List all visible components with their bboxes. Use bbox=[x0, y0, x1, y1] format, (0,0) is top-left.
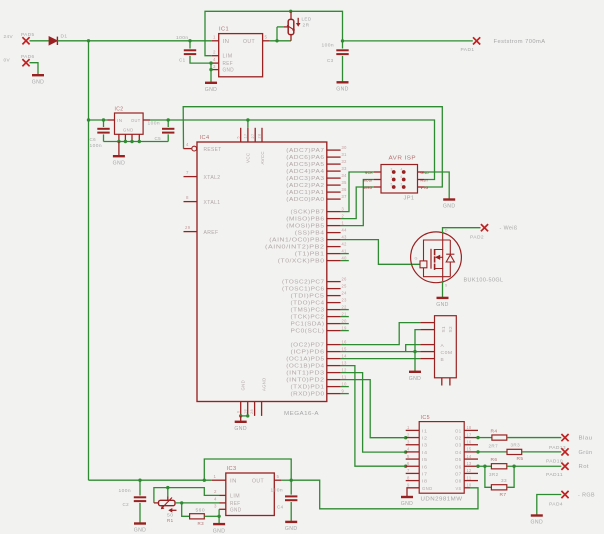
svg-text:GND: GND bbox=[336, 87, 349, 93]
IC4 pin 13 (OC1B)PD4 bbox=[286, 360, 347, 369]
svg-text:40: 40 bbox=[342, 255, 347, 260]
IC2 pin stubs bbox=[108, 119, 151, 121]
wire R4 to PAD13 bbox=[507, 437, 562, 439]
wire VCC pin to VCC rail bbox=[246, 118, 249, 128]
IC4 left pin XTAL1 bbox=[184, 195, 221, 206]
resistor R4 2R7 bbox=[489, 428, 507, 448]
svg-text:15: 15 bbox=[467, 447, 472, 452]
IC4 pin 42 (AIN0/INT2)PB2 bbox=[265, 241, 347, 250]
svg-text:GND: GND bbox=[230, 507, 242, 513]
wire R5 to PAD10 bbox=[522, 451, 562, 453]
wire O2 to R4 bbox=[478, 437, 492, 439]
wire stub PC1 bbox=[341, 323, 349, 325]
wire left vertical rail bbox=[88, 41, 90, 480]
pad PAD4 RGB common bbox=[549, 491, 595, 508]
svg-text:13: 13 bbox=[467, 461, 472, 466]
svg-text:(INT0)PD2: (INT0)PD2 bbox=[286, 378, 324, 384]
trimmer R2 labels bbox=[302, 17, 312, 28]
capacitor C4 100n bbox=[271, 480, 298, 522]
svg-text:17: 17 bbox=[244, 134, 248, 139]
svg-text:I3: I3 bbox=[422, 443, 428, 448]
IC4 pin 22 (TMS)PC3 bbox=[291, 304, 347, 313]
svg-text:GND: GND bbox=[134, 528, 147, 534]
wire R6 to PAD11 bbox=[507, 465, 562, 467]
svg-text:RST: RST bbox=[421, 179, 429, 183]
wire PAD6 to ground bbox=[30, 63, 39, 75]
svg-text:8: 8 bbox=[407, 475, 410, 480]
IC4 pin 31 (ADC6)PA6 bbox=[286, 152, 347, 161]
svg-text:AGND: AGND bbox=[261, 377, 267, 391]
IC1 pin numbers bbox=[213, 35, 268, 70]
IC4 pin 12 (INT1)PD3 bbox=[286, 367, 347, 376]
svg-text:(SS)PB4: (SS)PB4 bbox=[295, 231, 325, 237]
svg-text:28: 28 bbox=[258, 134, 262, 139]
IC4 pin 11 (INT0)PD2 bbox=[286, 374, 347, 383]
junction C2 top bbox=[138, 479, 141, 482]
IC4 pin 21 (TCK)PC2 bbox=[291, 311, 347, 320]
switch S1 rotary encoder box bbox=[420, 316, 456, 386]
svg-text:GND: GND bbox=[213, 528, 226, 534]
svg-text:GND: GND bbox=[234, 426, 247, 432]
svg-text:C4: C4 bbox=[277, 505, 284, 511]
IC4 pin 3 (SCK)PB7 bbox=[291, 206, 345, 215]
svg-text:(MISO)PB6: (MISO)PB6 bbox=[286, 217, 324, 223]
svg-text:S2: S2 bbox=[448, 326, 453, 333]
svg-text:(T1)PB1: (T1)PB1 bbox=[295, 252, 325, 258]
svg-text:(ADC5)PA5: (ADC5)PA5 bbox=[286, 162, 324, 168]
svg-text:4: 4 bbox=[186, 142, 189, 147]
svg-text:LIM: LIM bbox=[223, 54, 233, 60]
svg-text:16: 16 bbox=[342, 339, 347, 344]
IC4 pin 36 (ADC1)PA1 bbox=[286, 187, 347, 196]
IC4 pin 2 (MISO)PB6 bbox=[286, 213, 344, 222]
svg-text:C5: C5 bbox=[155, 136, 162, 142]
svg-text:MISO: MISO bbox=[363, 186, 373, 190]
svg-text:4: 4 bbox=[214, 497, 217, 502]
diode D1 bbox=[49, 34, 68, 46]
ground symbol at C3 bbox=[336, 82, 349, 92]
svg-text:IC2: IC2 bbox=[115, 107, 124, 113]
svg-text:2: 2 bbox=[214, 489, 217, 494]
svg-text:26: 26 bbox=[342, 276, 347, 281]
svg-text:GND: GND bbox=[32, 79, 45, 85]
transistor T1 BUK100-50GL bbox=[411, 229, 504, 288]
capacitor C2 100n bbox=[119, 480, 147, 523]
svg-text:GND: GND bbox=[223, 68, 235, 74]
svg-text:XTAL2: XTAL2 bbox=[204, 175, 221, 181]
svg-text:33: 33 bbox=[342, 166, 347, 171]
svg-text:O7: O7 bbox=[455, 471, 462, 476]
IC5 GND pin to ground bbox=[407, 488, 419, 497]
wire R3 to IC3 GND pin bbox=[204, 515, 219, 517]
microcontroller IC4 MEGA16-A box bbox=[197, 135, 327, 417]
IC1 pin stubs bbox=[211, 41, 270, 70]
svg-text:2: 2 bbox=[342, 213, 345, 218]
svg-text:I8: I8 bbox=[422, 479, 428, 484]
IC4 pin 40 (T0/XCK)PB0 bbox=[278, 255, 347, 264]
svg-text:R6: R6 bbox=[491, 457, 498, 463]
svg-text:R4: R4 bbox=[491, 428, 498, 434]
junction IC3 OUT bbox=[290, 479, 293, 482]
svg-text:XTAL1: XTAL1 bbox=[204, 200, 221, 206]
svg-text:44: 44 bbox=[342, 227, 347, 232]
wire stub PC0 bbox=[341, 330, 349, 332]
junction REF / R3 bbox=[180, 501, 183, 504]
svg-text:G: G bbox=[415, 257, 418, 261]
svg-text:UDN2981MW: UDN2981MW bbox=[421, 497, 463, 503]
svg-text:11: 11 bbox=[342, 374, 347, 379]
svg-text:O8: O8 bbox=[455, 479, 462, 484]
wire stub PD0 bbox=[341, 393, 349, 395]
wire RESET rail to ISP bbox=[183, 107, 442, 187]
svg-text:VCC: VCC bbox=[246, 152, 252, 163]
pad PAD2 white LED output bbox=[470, 224, 518, 240]
svg-text:PAD11: PAD11 bbox=[546, 472, 563, 478]
wire O6 to R6 bbox=[478, 465, 491, 467]
junction R3 / GND bbox=[217, 515, 220, 518]
wire IC3 GND pin to ground bbox=[218, 509, 220, 524]
resistor R7 33 parallel branch bbox=[485, 466, 514, 498]
svg-text:S1: S1 bbox=[441, 326, 446, 333]
svg-text:12: 12 bbox=[342, 367, 347, 372]
svg-text:C0M: C0M bbox=[441, 350, 453, 356]
svg-text:22: 22 bbox=[342, 304, 347, 309]
ground symbol at C2 bbox=[134, 524, 147, 534]
svg-text:VTG: VTG bbox=[421, 186, 429, 190]
svg-text:7: 7 bbox=[186, 170, 189, 175]
svg-text:41: 41 bbox=[342, 248, 347, 253]
svg-text:36: 36 bbox=[342, 187, 347, 192]
wire trimmer row to IC3 LIM bbox=[154, 488, 220, 503]
svg-text:50: 50 bbox=[167, 513, 174, 518]
IC4 pin 26 (TOSC2)PC7 bbox=[282, 276, 347, 285]
wire R1 to IC3 REF bbox=[175, 502, 220, 504]
svg-text:MEGA16-A: MEGA16-A bbox=[284, 411, 319, 417]
ground symbol at IC1 bbox=[205, 83, 218, 93]
svg-text:GND: GND bbox=[401, 501, 414, 507]
svg-text:3: 3 bbox=[214, 504, 217, 509]
svg-text:IC1: IC1 bbox=[219, 27, 229, 33]
IC4 left pin XTAL2 bbox=[184, 170, 221, 181]
junction top rail / trimmer R2 bbox=[289, 10, 292, 13]
IC4 pin 23 (TDO)PC4 bbox=[291, 297, 347, 306]
svg-text:(TOSC2)PC7: (TOSC2)PC7 bbox=[282, 280, 325, 286]
wire O4 to R5 bbox=[478, 451, 507, 453]
IC4 pin 44 (SS)PB4 bbox=[295, 227, 347, 236]
svg-text:3: 3 bbox=[213, 64, 216, 69]
wire PD6 to encoder COM bbox=[341, 351, 421, 353]
wire IC2 ground drop bbox=[118, 142, 120, 157]
svg-text:I1: I1 bbox=[422, 428, 428, 433]
junction VCC row / left rail bbox=[87, 118, 90, 121]
svg-text:Grün: Grün bbox=[579, 450, 593, 456]
svg-text:R7: R7 bbox=[500, 492, 507, 498]
regulator IC2 box bbox=[115, 107, 144, 135]
svg-text:6: 6 bbox=[236, 411, 240, 413]
IC4 pin 15 (ICP)PD6 bbox=[291, 346, 347, 355]
wire IC3 OUT to C4 and VS bbox=[281, 479, 291, 481]
driver IC5 box bbox=[419, 415, 464, 503]
svg-text:(ADC6)PA6: (ADC6)PA6 bbox=[286, 155, 324, 161]
wire IC3 bypass loop IN to OUT bbox=[204, 459, 291, 480]
regulator IC3 box bbox=[226, 466, 274, 516]
svg-text:100n: 100n bbox=[119, 488, 132, 494]
junction wiper R1 bbox=[166, 486, 169, 489]
svg-text:42: 42 bbox=[342, 241, 347, 246]
wire PD2 to IC5 I2 bbox=[341, 380, 408, 440]
IC4 pin 14 (OC1A)PD5 bbox=[286, 353, 347, 362]
svg-text:(OC1A)PD5: (OC1A)PD5 bbox=[286, 357, 324, 363]
ground symbol at IC5 bbox=[401, 497, 414, 507]
capacitor C6 100n bbox=[90, 120, 110, 149]
capacitor C3 100n bbox=[322, 41, 349, 82]
svg-text:7: 7 bbox=[407, 468, 410, 473]
junction at 24V rail / left vertical rail bbox=[87, 39, 90, 42]
svg-text:(ICP)PD6: (ICP)PD6 bbox=[291, 350, 325, 356]
svg-text:21: 21 bbox=[342, 311, 347, 316]
svg-text:1: 1 bbox=[391, 175, 393, 179]
svg-text:10: 10 bbox=[342, 381, 347, 386]
svg-text:PAD5: PAD5 bbox=[21, 32, 35, 38]
svg-text:R3: R3 bbox=[198, 521, 205, 526]
IC4 pin 16 (OC2)PD7 bbox=[291, 339, 347, 348]
svg-text:25: 25 bbox=[342, 283, 347, 288]
svg-text:GND: GND bbox=[409, 376, 422, 382]
svg-text:I5: I5 bbox=[422, 457, 428, 462]
svg-text:AREF: AREF bbox=[204, 230, 219, 236]
svg-text:MOSI: MOSI bbox=[363, 179, 373, 183]
IC5 pin stubs and labels bbox=[406, 425, 478, 491]
svg-text:IC5: IC5 bbox=[421, 415, 431, 421]
svg-text:0V: 0V bbox=[4, 58, 11, 64]
junction at C1 / 24V rail bbox=[188, 39, 191, 42]
svg-text:(T0/XCK)PB0: (T0/XCK)PB0 bbox=[278, 259, 325, 265]
wire REF junction down to R3 bbox=[182, 503, 190, 516]
svg-text:O3: O3 bbox=[455, 443, 462, 448]
svg-text:PC1(SDA): PC1(SDA) bbox=[291, 322, 325, 328]
junction IC5 O6 bbox=[476, 465, 479, 468]
wire IC1 REF/GND to ground bbox=[209, 61, 212, 82]
svg-text:6: 6 bbox=[407, 461, 410, 466]
svg-text:(SCK)PB7: (SCK)PB7 bbox=[291, 210, 325, 216]
svg-text:IN: IN bbox=[223, 39, 230, 45]
svg-text:5: 5 bbox=[277, 474, 280, 479]
svg-text:REF: REF bbox=[223, 61, 234, 67]
svg-text:IC4: IC4 bbox=[200, 135, 210, 141]
svg-text:100n: 100n bbox=[148, 121, 161, 127]
svg-text:(RXD)PD0: (RXD)PD0 bbox=[291, 392, 325, 398]
svg-text:10: 10 bbox=[467, 483, 472, 488]
trimmer R2 bbox=[277, 11, 301, 41]
svg-text:100n: 100n bbox=[322, 43, 335, 49]
svg-text:5: 5 bbox=[407, 454, 410, 459]
svg-text:IC3: IC3 bbox=[227, 466, 237, 472]
svg-text:Feststrom 700mA: Feststrom 700mA bbox=[494, 39, 546, 45]
pad PAD13 blue bbox=[549, 434, 593, 451]
svg-text:(ADC7)PA7: (ADC7)PA7 bbox=[286, 148, 324, 154]
svg-text:D1: D1 bbox=[61, 34, 68, 40]
svg-text:O1: O1 bbox=[455, 428, 462, 433]
svg-text:C3: C3 bbox=[327, 58, 334, 64]
svg-text:(MOSI)PB5: (MOSI)PB5 bbox=[286, 224, 324, 230]
svg-text:16: 16 bbox=[467, 440, 472, 445]
ground symbol at IC4 bbox=[234, 422, 247, 432]
svg-text:PAD10: PAD10 bbox=[546, 459, 563, 465]
svg-text:(TCK)PC2: (TCK)PC2 bbox=[291, 315, 325, 321]
svg-text:24V: 24V bbox=[4, 34, 14, 40]
wire PD4 to IC5 I6 bbox=[341, 366, 408, 468]
wire PD7 to encoder pin1 bbox=[341, 323, 421, 345]
svg-text:100n: 100n bbox=[176, 35, 189, 41]
svg-text:O4: O4 bbox=[455, 450, 462, 455]
svg-text:14: 14 bbox=[342, 353, 347, 358]
svg-text:(TDI)PC5: (TDI)PC5 bbox=[291, 294, 325, 300]
svg-text:GND: GND bbox=[422, 486, 433, 491]
svg-text:PAD2: PAD2 bbox=[470, 235, 484, 241]
JP1 pin names bbox=[363, 171, 429, 190]
junction encoder COM / ground bbox=[413, 350, 416, 353]
svg-text:JP1: JP1 bbox=[404, 196, 415, 202]
resistor R5 3R3 bbox=[507, 443, 524, 462]
IC4 left pin RESET with bubble bbox=[184, 142, 222, 153]
svg-text:2R: 2R bbox=[303, 23, 310, 28]
svg-text:O6: O6 bbox=[455, 464, 462, 469]
svg-text:GND: GND bbox=[241, 380, 247, 391]
svg-text:4: 4 bbox=[213, 57, 216, 62]
svg-text:R1: R1 bbox=[167, 518, 174, 523]
svg-text:3R3: 3R3 bbox=[511, 443, 521, 448]
IC4 pin 20 PC1(SDA) bbox=[291, 318, 347, 327]
svg-text:28: 28 bbox=[250, 409, 254, 414]
wire left rail to IC2 IN bbox=[89, 119, 108, 121]
svg-text:AVR ISP: AVR ISP bbox=[389, 156, 417, 162]
svg-text:REF: REF bbox=[230, 501, 241, 507]
svg-text:3R2: 3R2 bbox=[489, 472, 499, 477]
capacitor C5 100n bbox=[148, 120, 175, 142]
svg-text:560: 560 bbox=[196, 507, 206, 512]
wire stub PB1 bbox=[341, 253, 349, 255]
trimmer R1 bbox=[154, 488, 177, 513]
svg-text:BUK100-50GL: BUK100-50GL bbox=[464, 278, 504, 284]
svg-text:R5: R5 bbox=[517, 456, 524, 462]
junction IC5 O2 bbox=[476, 436, 479, 439]
svg-text:1: 1 bbox=[213, 35, 216, 40]
wire PD3 to IC5 I4 bbox=[341, 373, 408, 454]
IC4 left pin AREF bbox=[184, 225, 219, 236]
svg-text:1: 1 bbox=[214, 474, 217, 479]
svg-text:5: 5 bbox=[391, 183, 393, 187]
svg-text:4: 4 bbox=[401, 168, 403, 172]
svg-text:GND: GND bbox=[113, 160, 126, 166]
IC3 pin stubs bbox=[212, 480, 281, 509]
junction R6 / R7 left bbox=[483, 465, 486, 468]
svg-text:(TOSC1)PC6: (TOSC1)PC6 bbox=[282, 287, 325, 293]
svg-text:IN: IN bbox=[117, 118, 123, 123]
wire D1 cathode to IC1 IN (24V rail) bbox=[57, 40, 211, 42]
svg-text:2: 2 bbox=[213, 50, 216, 55]
svg-text:D: D bbox=[445, 229, 448, 233]
wire stub PD1 bbox=[341, 386, 349, 388]
svg-text:18: 18 bbox=[243, 409, 247, 414]
svg-text:PC0(SCL): PC0(SCL) bbox=[291, 329, 325, 335]
svg-text:GND: GND bbox=[531, 520, 544, 526]
wire encoder A step bbox=[406, 345, 421, 352]
wire stub PC3 bbox=[341, 309, 349, 311]
svg-text:OUT: OUT bbox=[131, 118, 141, 123]
ground symbol at encoder bbox=[409, 372, 422, 382]
IC4 top pin numbers bbox=[236, 134, 261, 139]
junction C3 node bbox=[341, 39, 344, 42]
wire stub PB0 bbox=[341, 260, 349, 262]
wire PAD4 to ground bbox=[537, 495, 562, 516]
junction IC3 IN / bypass loop bbox=[203, 479, 206, 482]
svg-text:(INT1)PD3: (INT1)PD3 bbox=[286, 371, 324, 377]
svg-text:24: 24 bbox=[342, 290, 347, 295]
IC4 pin 25 (TOSC1)PC6 bbox=[282, 283, 347, 292]
pad PAD6 (0V input) bbox=[4, 54, 35, 66]
IC4 pin 19 PC0(SCL) bbox=[291, 325, 347, 334]
wire IC1 LIM loop to top rail bbox=[205, 11, 473, 55]
svg-text:5: 5 bbox=[236, 136, 240, 138]
svg-text:9: 9 bbox=[342, 388, 345, 393]
svg-text:100n: 100n bbox=[90, 143, 103, 149]
IC4 bottom pin numbers bbox=[236, 409, 254, 414]
IC4 pin 41 (T1)PB1 bbox=[295, 248, 347, 257]
svg-text:A: A bbox=[441, 343, 445, 349]
svg-text:12: 12 bbox=[467, 468, 472, 473]
JP1 pin stubs bbox=[374, 172, 424, 187]
svg-text:17: 17 bbox=[467, 432, 472, 437]
wire stub PC2 bbox=[341, 316, 349, 318]
svg-text:(TXD)PD1: (TXD)PD1 bbox=[291, 385, 325, 391]
svg-text:3: 3 bbox=[391, 168, 393, 172]
ground symbol at MOSFET bbox=[436, 298, 449, 308]
svg-text:OUT: OUT bbox=[243, 39, 255, 45]
JP1 pads bbox=[392, 170, 406, 189]
op-amp regulator IC1 (L200) box bbox=[219, 27, 263, 77]
pad PAD11 red bbox=[546, 463, 589, 479]
svg-text:PAD4: PAD4 bbox=[549, 502, 563, 508]
svg-text:2R7: 2R7 bbox=[489, 443, 499, 448]
wire PAD5 to D1 anode bbox=[30, 40, 50, 42]
IC4 pin 10 (TXD)PD1 bbox=[291, 381, 347, 390]
trimmer R1 labels bbox=[167, 513, 174, 524]
junction R6 / R7 right bbox=[512, 465, 515, 468]
svg-text:O2: O2 bbox=[455, 436, 462, 441]
IC3 pin labels bbox=[230, 478, 264, 513]
ground symbol at PAD4 bbox=[531, 516, 544, 526]
svg-text:1: 1 bbox=[407, 425, 410, 430]
IC2 pin labels bbox=[117, 118, 141, 133]
svg-text:37: 37 bbox=[342, 194, 347, 199]
wire PB6 MISO to ISP bbox=[341, 187, 374, 219]
junction C6 top bbox=[102, 118, 105, 121]
svg-text:I4: I4 bbox=[422, 450, 428, 455]
svg-text:29: 29 bbox=[185, 225, 191, 230]
svg-text:RESET: RESET bbox=[204, 147, 222, 153]
svg-text:B: B bbox=[441, 357, 445, 363]
IC4 pin 30 (ADC7)PA7 bbox=[286, 145, 347, 154]
svg-text:14: 14 bbox=[467, 454, 472, 459]
svg-text:6: 6 bbox=[401, 175, 403, 179]
ground symbol at IC3 bbox=[213, 524, 226, 534]
svg-text:11: 11 bbox=[467, 475, 472, 480]
svg-text:100n: 100n bbox=[271, 488, 284, 494]
svg-text:3: 3 bbox=[407, 440, 410, 445]
wire MOSFET source to ground bbox=[442, 281, 444, 298]
wire PD5 to encoder B bbox=[341, 358, 421, 360]
svg-text:VS: VS bbox=[456, 486, 462, 491]
